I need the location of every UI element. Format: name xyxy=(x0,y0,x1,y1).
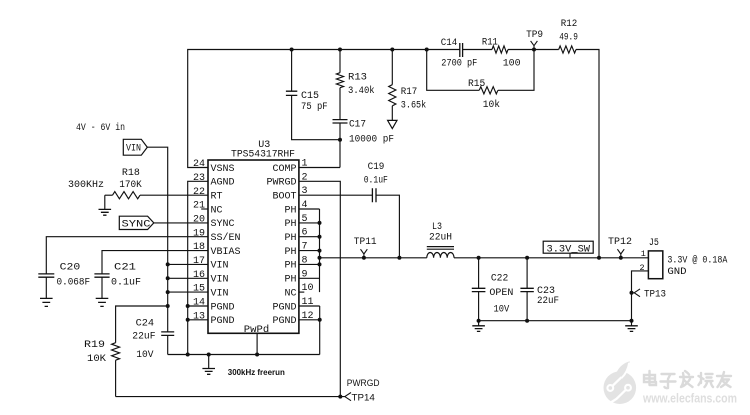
svg-text:TP11: TP11 xyxy=(354,237,377,248)
wire J5 pin2 return xyxy=(632,271,649,321)
svg-text:C24: C24 xyxy=(136,319,155,330)
svg-text:TPS54317RHF: TPS54317RHF xyxy=(231,149,295,160)
wire COMP pin1 xyxy=(299,167,340,169)
svg-text:4V - 6V in: 4V - 6V in xyxy=(76,122,125,134)
wire output ground bus xyxy=(477,319,634,323)
svg-text:R17: R17 xyxy=(401,87,418,98)
svg-text:PH: PH xyxy=(284,233,296,244)
ground below C22 xyxy=(472,321,485,332)
svg-text:www.elecfans.com: www.elecfans.com xyxy=(642,392,737,406)
svg-text:VIN: VIN xyxy=(211,261,229,272)
resistor R11 xyxy=(482,38,521,70)
svg-text:10k: 10k xyxy=(483,99,500,111)
svg-text:R18: R18 xyxy=(122,168,140,179)
svg-text:0.1uF: 0.1uF xyxy=(111,278,141,289)
svg-text:0.068F: 0.068F xyxy=(57,278,91,289)
PwPd pad stub xyxy=(256,333,258,354)
net flag SYNC xyxy=(119,216,154,230)
junction dot BOOT cap xyxy=(397,256,401,260)
svg-text:C21: C21 xyxy=(114,262,136,273)
capacitor C20 xyxy=(38,262,90,298)
svg-text:22uF: 22uF xyxy=(132,331,155,342)
NC pin21 stub xyxy=(201,208,208,210)
svg-text:R11: R11 xyxy=(482,38,498,49)
svg-text:10000 pF: 10000 pF xyxy=(349,135,394,146)
svg-text:1: 1 xyxy=(641,249,646,259)
test point TP13 xyxy=(630,289,667,301)
svg-text:PH: PH xyxy=(284,205,296,216)
svg-text:PWRGD: PWRGD xyxy=(266,178,296,189)
junction dots top rail xyxy=(290,48,536,142)
svg-text:R13: R13 xyxy=(348,73,367,84)
resistor R18 on RT pin22 xyxy=(105,168,208,199)
capacitor C15 xyxy=(286,50,340,140)
wire PWRGD pin2 down to TP14 xyxy=(299,181,340,396)
U3 right pin names xyxy=(266,164,296,327)
svg-text:SS/EN: SS/EN xyxy=(211,232,241,244)
wire VIN flag to VIN bus xyxy=(147,147,167,332)
watermark logo elecfans xyxy=(604,361,637,404)
svg-text:PH: PH xyxy=(284,261,296,272)
svg-text:VIN: VIN xyxy=(126,144,141,155)
svg-text:NC: NC xyxy=(211,205,223,216)
U3 left pin names xyxy=(211,164,241,327)
svg-text:VIN: VIN xyxy=(211,275,229,286)
wire SYNC flag to pin20 xyxy=(154,222,208,224)
wire BOOT pin3 to C19 xyxy=(299,194,373,196)
svg-text:TP13: TP13 xyxy=(644,290,666,301)
svg-text:R15: R15 xyxy=(468,79,485,90)
svg-text:18: 18 xyxy=(193,242,205,253)
inductor L3 xyxy=(427,222,454,258)
svg-text:PH: PH xyxy=(284,219,296,230)
test point TP11 xyxy=(354,237,377,260)
svg-text:0.1uF: 0.1uF xyxy=(364,176,388,187)
IC U3 TPS54317RHF body xyxy=(208,140,299,336)
svg-text:300kHz freerun: 300kHz freerun xyxy=(228,368,285,377)
watermark chinese characters xyxy=(644,371,731,388)
svg-text:TP12: TP12 xyxy=(608,237,632,248)
PGND pins 11,12 bus to ground wire xyxy=(299,306,322,355)
PH bus pins 4-9 xyxy=(299,209,320,292)
PGND pins 14,13 stubs xyxy=(186,304,208,322)
net label 3.3V_SW xyxy=(543,241,593,258)
svg-text:300KHz: 300KHz xyxy=(68,180,104,191)
capacitor C22 xyxy=(472,256,514,321)
svg-text:COMP: COMP xyxy=(272,164,296,175)
svg-text:PWRGD: PWRGD xyxy=(347,378,380,389)
resistor R13 xyxy=(336,50,374,97)
svg-text:SYNC: SYNC xyxy=(211,219,235,230)
svg-text:13: 13 xyxy=(193,311,205,322)
ground below R18 xyxy=(99,195,112,215)
wire bottom PWRGD/TP14 xyxy=(116,396,341,398)
svg-text:3.40k: 3.40k xyxy=(348,85,375,97)
U3 left pin numbers 24-13 xyxy=(193,159,205,322)
svg-text:10V: 10V xyxy=(494,304,510,315)
svg-text:PGND: PGND xyxy=(272,316,296,327)
svg-text:22: 22 xyxy=(193,187,205,198)
svg-text:VBIAS: VBIAS xyxy=(211,247,241,258)
svg-text:14: 14 xyxy=(193,298,205,309)
svg-text:PGND: PGND xyxy=(272,302,296,313)
svg-text:OPEN: OPEN xyxy=(489,288,513,299)
svg-text:21: 21 xyxy=(193,201,205,212)
capacitor C23 xyxy=(520,256,559,321)
svg-text:RT: RT xyxy=(211,192,223,203)
svg-text:PH: PH xyxy=(284,275,296,286)
center ground symbol xyxy=(202,355,215,375)
svg-text:J5: J5 xyxy=(649,238,659,249)
capacitor C24 xyxy=(132,319,174,361)
svg-text:23: 23 xyxy=(193,173,205,184)
svg-text:NC: NC xyxy=(284,288,296,299)
svg-text:SYNC: SYNC xyxy=(122,220,151,231)
svg-text:24: 24 xyxy=(193,159,205,170)
svg-text:R12: R12 xyxy=(561,19,578,30)
wire R11 to TP9 to R12 xyxy=(508,49,559,51)
junction dot R12 drop xyxy=(597,256,601,260)
capacitor C17 xyxy=(333,88,395,168)
test point TP14 xyxy=(338,392,375,403)
wire R12 right, down to output rail xyxy=(576,50,599,258)
svg-text:3.65k: 3.65k xyxy=(401,100,426,112)
resistor R19 pull-up xyxy=(84,304,170,397)
svg-text:15: 15 xyxy=(193,284,205,295)
svg-text:C20: C20 xyxy=(60,262,81,273)
svg-text:17: 17 xyxy=(193,256,205,267)
svg-text:10V: 10V xyxy=(136,350,153,361)
svg-text:3.3V @ 0.18A: 3.3V @ 0.18A xyxy=(667,254,727,266)
wire AGND pin23 bus down xyxy=(188,181,208,354)
test point TP12 xyxy=(608,237,632,260)
svg-text:PwPd: PwPd xyxy=(244,324,269,336)
svg-text:20: 20 xyxy=(193,215,205,226)
svg-text:100: 100 xyxy=(503,59,521,70)
svg-text:2700 pF: 2700 pF xyxy=(441,59,477,70)
svg-text:49.9: 49.9 xyxy=(559,33,578,44)
svg-text:AGND: AGND xyxy=(211,178,235,189)
svg-text:C22: C22 xyxy=(491,274,508,285)
svg-text:R19: R19 xyxy=(84,340,105,351)
svg-text:PGND: PGND xyxy=(211,302,235,313)
NC pin10 stub xyxy=(299,291,304,293)
svg-text:TP14: TP14 xyxy=(352,392,375,403)
connector J5 xyxy=(640,238,663,279)
svg-text:VSNS: VSNS xyxy=(211,164,235,175)
wire VBIAS pin18 to C21 xyxy=(102,251,208,274)
net flag VIN xyxy=(123,139,147,155)
capacitor C14 xyxy=(441,38,478,70)
wire top rail C14 to R11 xyxy=(463,49,492,51)
ground wire below IC xyxy=(168,353,320,357)
U3 right pin numbers 1-12 xyxy=(302,159,314,322)
svg-text:22uH: 22uH xyxy=(429,233,452,244)
wire PH output rail xyxy=(320,257,649,259)
svg-text:3.3V_SW: 3.3V_SW xyxy=(547,244,591,255)
svg-text:GND: GND xyxy=(667,267,686,278)
wire SS/EN pin19 to C20 xyxy=(46,237,208,274)
svg-text:PGND: PGND xyxy=(211,316,235,327)
svg-text:C15: C15 xyxy=(301,91,319,102)
svg-text:22uF: 22uF xyxy=(537,296,559,307)
svg-text:TP9: TP9 xyxy=(526,30,543,41)
svg-text:170K: 170K xyxy=(119,180,142,191)
svg-text:L3: L3 xyxy=(432,222,442,233)
off-page arrow below R17 xyxy=(388,120,397,128)
svg-text:BOOT: BOOT xyxy=(272,192,296,203)
PH bus junction dots xyxy=(318,221,322,267)
svg-text:C14: C14 xyxy=(441,38,458,49)
label output rating xyxy=(667,254,727,278)
svg-text:PH: PH xyxy=(284,247,296,258)
svg-text:C19: C19 xyxy=(368,162,385,173)
test point TP9 xyxy=(526,30,543,49)
svg-text:16: 16 xyxy=(193,270,205,281)
wire C19 down to PH rail xyxy=(376,195,399,258)
capacitor C21 xyxy=(94,262,141,298)
wire VSNS feedback: pin24 stub, up and along top rail to C14 xyxy=(188,50,460,168)
svg-text:C17: C17 xyxy=(349,119,366,130)
svg-text:19: 19 xyxy=(193,228,205,239)
ground below C20 xyxy=(40,298,53,306)
resistor R12 xyxy=(559,19,578,53)
VIN pins 17,16,15 stubs xyxy=(166,262,208,294)
svg-text:VIN: VIN xyxy=(211,288,229,299)
resistor R17 xyxy=(389,50,426,121)
capacitor C19 xyxy=(364,162,388,202)
svg-text:10K: 10K xyxy=(87,354,106,365)
svg-text:75 pF: 75 pF xyxy=(301,102,328,113)
ground below C21 xyxy=(96,298,109,306)
resistor R15 parallel branch xyxy=(427,50,534,112)
ground right under J5 return xyxy=(625,321,638,332)
